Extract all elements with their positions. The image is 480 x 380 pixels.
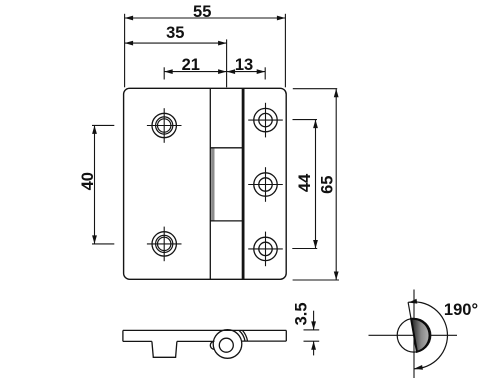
knuckle middle segment shadow [211, 148, 214, 221]
hinge front view outline [124, 88, 287, 279]
hole front-left bottom [147, 227, 182, 262]
svg-text:65: 65 [319, 176, 337, 194]
detail vertical centerline [413, 290, 415, 379]
side view curl end cap [210, 341, 214, 349]
svg-text:3.5: 3.5 [293, 302, 311, 325]
hole front-right bottom [248, 232, 283, 267]
dimension 13 [227, 67, 266, 79]
side view curl line 2 [243, 331, 248, 342]
detail 190 degree reference line [408, 302, 414, 335]
side view right edge [285, 330, 287, 341]
detail pin circle [397, 319, 431, 353]
side view bottom line right [242, 340, 287, 342]
detail half disc [411, 319, 429, 352]
detail arc arrow bottom [414, 365, 423, 370]
dimension 44 [292, 120, 318, 249]
side view pin hole [219, 338, 233, 352]
detail arc arrow top [409, 299, 418, 304]
dimension 35 [125, 39, 227, 87]
svg-text:190°: 190° [444, 301, 478, 319]
svg-text:40: 40 [79, 172, 97, 190]
svg-text:44: 44 [296, 173, 314, 192]
hole front-right top [248, 103, 283, 138]
svg-text:55: 55 [193, 3, 211, 21]
svg-text:21: 21 [182, 56, 200, 74]
side view plate top line [123, 329, 286, 331]
knuckle joint line upper [210, 147, 242, 149]
side view weld nut tab [152, 341, 177, 357]
dimension 55 [125, 14, 286, 88]
side view left edge [122, 330, 124, 341]
knuckle left edge line [209, 88, 211, 279]
hole front-right middle [248, 167, 283, 202]
svg-text:35: 35 [166, 24, 184, 42]
pivot line thick [242, 88, 245, 279]
side view bottom line left [123, 340, 152, 342]
svg-text:13: 13 [235, 56, 253, 74]
knuckle joint line lower [210, 220, 242, 222]
dimension 3.5 [304, 311, 320, 356]
dimension 65 [293, 89, 339, 280]
hole front-left top [147, 108, 182, 143]
dimension 21 [164, 67, 226, 79]
side view bottom line middle [177, 340, 214, 342]
side view curl line 1 [239, 331, 245, 342]
detail 190 degree arc [408, 302, 447, 369]
detail horizontal centerline [369, 334, 458, 336]
dimension 40 [92, 125, 114, 243]
side view knuckle outer circle [213, 330, 242, 359]
